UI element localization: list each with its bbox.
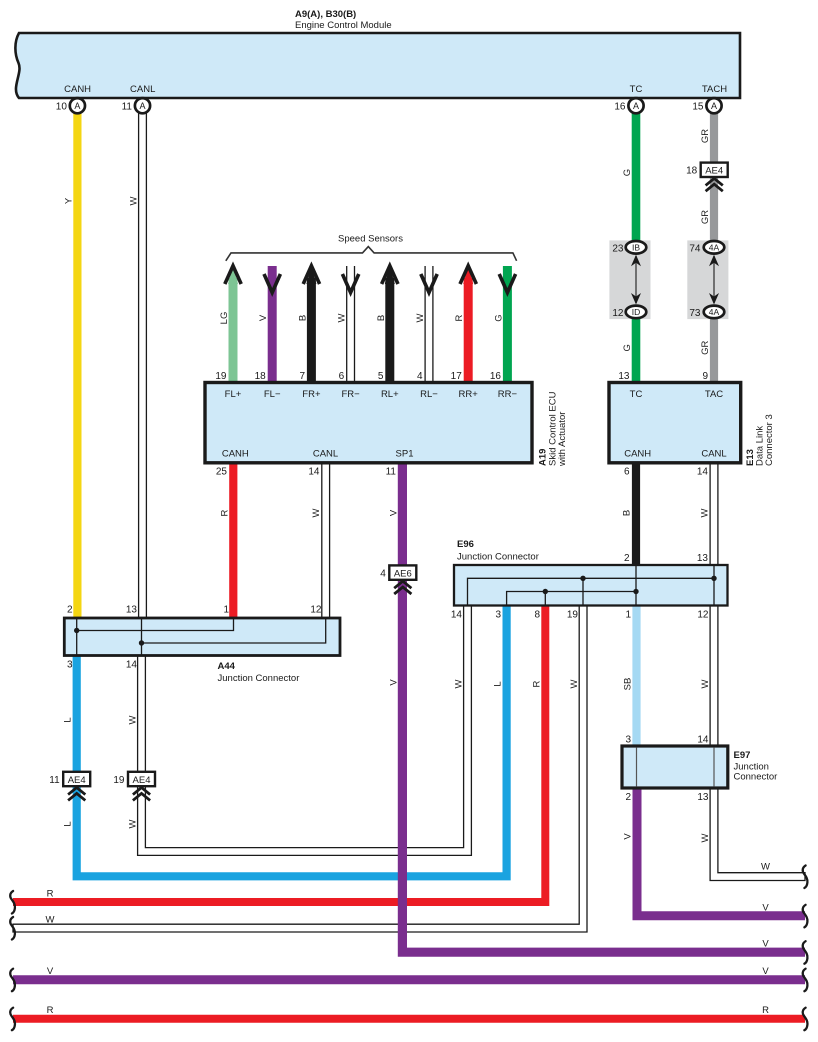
svg-text:Junction Connector: Junction Connector — [218, 673, 300, 684]
ECM A9(A),B30(B) Engine Control Module box — [15, 33, 740, 98]
svg-text:14: 14 — [308, 467, 320, 478]
svg-text:R: R — [454, 314, 465, 321]
svg-text:16: 16 — [614, 101, 626, 112]
svg-text:TC: TC — [630, 84, 643, 95]
svg-text:W: W — [454, 679, 465, 688]
svg-text:Connector 3: Connector 3 — [764, 414, 775, 466]
Speed Sensors brace — [226, 247, 517, 261]
svg-text:V: V — [623, 833, 634, 840]
svg-text:4A: 4A — [709, 243, 720, 253]
svg-text:CANH: CANH — [64, 84, 91, 95]
svg-text:SB: SB — [623, 678, 634, 691]
svg-text:GR: GR — [700, 129, 711, 143]
svg-text:LG: LG — [219, 312, 230, 325]
svg-text:16: 16 — [490, 371, 502, 382]
svg-text:RR+: RR+ — [459, 389, 479, 400]
svg-text:2: 2 — [625, 792, 631, 803]
svg-text:11: 11 — [122, 101, 133, 112]
splice AE4 (19) on W wire — [128, 772, 155, 786]
svg-text:R: R — [47, 889, 54, 900]
wire G: ECM TC pin16 to IB connector — [632, 113, 641, 244]
wire W: E96 pin19 down to left edge break (L-shaped) — [13, 605, 587, 932]
svg-text:6: 6 — [624, 467, 630, 478]
svg-text:W: W — [337, 313, 348, 322]
svg-text:13: 13 — [126, 605, 138, 616]
splice AE6 (4) on V wire — [389, 565, 416, 579]
ECM terminal circle 15(A) — [706, 98, 721, 113]
svg-text:14: 14 — [697, 735, 709, 746]
svg-text:V: V — [762, 939, 769, 950]
oval terminal 74 4A — [704, 241, 725, 254]
svg-text:R: R — [47, 1005, 54, 1016]
wire G: ID connector to E13 pin13 — [632, 315, 641, 383]
svg-text:12: 12 — [310, 605, 322, 616]
svg-text:SP1: SP1 — [396, 449, 414, 460]
E96 internal bus wiring — [468, 578, 715, 605]
wire V: E97 pin2 down to right edge break — [637, 788, 805, 916]
svg-text:A: A — [74, 101, 80, 111]
A44 junction dots — [74, 628, 79, 633]
svg-text:E97: E97 — [734, 750, 751, 761]
svg-text:3: 3 — [67, 660, 73, 671]
speed sensor wire W (down arrow) — [347, 266, 355, 383]
wire GR: ECM TACH pin15 to 4A connector — [710, 113, 718, 244]
connector arrows IB to ID — [635, 256, 637, 303]
svg-text:74: 74 — [689, 243, 701, 254]
wire B: E13 CANH pin6 to E96 pin2 — [632, 463, 640, 565]
svg-text:12: 12 — [612, 308, 624, 319]
svg-text:A: A — [633, 101, 639, 111]
wire V: full-width bottom violet — [13, 975, 805, 984]
svg-text:RL+: RL+ — [381, 389, 399, 400]
svg-text:W: W — [46, 915, 55, 926]
speed sensor wire V (down arrow) — [268, 266, 277, 383]
svg-text:19: 19 — [113, 775, 125, 786]
svg-text:TC: TC — [630, 389, 643, 400]
svg-text:R: R — [762, 1005, 769, 1016]
svg-text:4A: 4A — [709, 307, 720, 317]
ECM terminal circle 11(A) — [135, 98, 150, 113]
svg-text:TACH: TACH — [702, 84, 727, 95]
wire Y: ECM CANH pin10 to A44 pin2 — [73, 113, 81, 618]
svg-text:Speed Sensors: Speed Sensors — [338, 234, 403, 245]
svg-text:10: 10 — [56, 101, 68, 112]
svg-text:AE6: AE6 — [394, 568, 412, 579]
ECM terminal circle 16(A) — [628, 98, 643, 113]
svg-text:3: 3 — [495, 610, 501, 621]
oval terminal 73 4A — [704, 306, 725, 319]
wire SB: E96 pin1 to E97 pin3 — [632, 605, 640, 746]
svg-text:AE4: AE4 — [133, 775, 151, 786]
svg-text:5: 5 — [378, 371, 384, 382]
svg-text:Junction Connector: Junction Connector — [457, 552, 539, 563]
junction connector A44 box — [64, 618, 340, 656]
wire W: E13 CANL pin14 to E96 pin13 — [710, 463, 718, 565]
svg-text:6: 6 — [339, 371, 345, 382]
svg-text:AE4: AE4 — [705, 166, 723, 177]
svg-text:FR−: FR− — [341, 389, 360, 400]
wire break symbols — [10, 891, 15, 914]
junction connector E97 box — [622, 746, 728, 788]
svg-text:Y: Y — [64, 197, 75, 204]
svg-text:R: R — [531, 680, 542, 687]
wire W: E97 pin13 down to right edge break (L-shaped) — [710, 788, 805, 881]
svg-text:RL−: RL− — [420, 389, 438, 400]
splice AE4 (18) on GR wire — [701, 163, 728, 177]
svg-text:FL−: FL− — [264, 389, 281, 400]
speed sensor wire B (up arrow) — [385, 278, 394, 383]
ECM terminal circle 10(A) — [70, 98, 85, 113]
svg-text:CANL: CANL — [313, 449, 338, 460]
svg-text:11: 11 — [386, 467, 397, 478]
svg-text:18: 18 — [686, 166, 698, 177]
svg-text:V: V — [47, 966, 54, 977]
svg-text:L: L — [63, 821, 74, 826]
svg-text:V: V — [762, 966, 769, 977]
svg-text:4: 4 — [380, 568, 386, 579]
svg-text:G: G — [622, 344, 633, 351]
svg-text:B: B — [376, 315, 387, 321]
wire L: A44 pin3 via AE4(11) to E96 pin3 — [77, 605, 507, 876]
svg-text:11: 11 — [49, 775, 60, 786]
svg-text:AE4: AE4 — [68, 775, 86, 786]
svg-text:13: 13 — [618, 371, 630, 382]
oval terminal ID — [626, 306, 647, 319]
svg-text:1: 1 — [223, 605, 229, 616]
svg-text:19: 19 — [567, 610, 579, 621]
svg-text:2: 2 — [624, 553, 630, 564]
svg-text:A: A — [139, 101, 145, 111]
svg-text:14: 14 — [451, 610, 463, 621]
wire V: A19 SP1 pin11 via AE6 to right edge break (drawn last, crosses others) — [402, 463, 805, 952]
svg-text:R: R — [219, 509, 230, 516]
svg-text:V: V — [258, 314, 269, 321]
svg-text:CANH: CANH — [222, 449, 249, 460]
svg-text:CANH: CANH — [624, 449, 651, 460]
svg-text:B: B — [297, 315, 308, 321]
svg-text:L: L — [493, 681, 504, 686]
svg-text:A44: A44 — [218, 661, 236, 672]
svg-text:1: 1 — [625, 610, 631, 621]
svg-text:W: W — [129, 196, 140, 205]
svg-text:RR−: RR− — [498, 389, 518, 400]
oval terminal IB — [626, 241, 647, 254]
svg-text:25: 25 — [216, 467, 228, 478]
svg-text:ID: ID — [632, 307, 641, 317]
wire R: left edge break to E96 pin8 — [13, 605, 545, 902]
svg-text:B: B — [622, 510, 633, 516]
svg-text:18: 18 — [255, 371, 267, 382]
E96 junction dots — [580, 576, 585, 581]
svg-text:W: W — [311, 508, 322, 517]
svg-text:W: W — [415, 313, 426, 322]
svg-text:W: W — [700, 508, 711, 517]
svg-text:7: 7 — [299, 371, 305, 382]
svg-text:W: W — [128, 819, 139, 828]
wire W: ECM CANL pin11 to A44 pin13 — [139, 113, 147, 618]
svg-text:17: 17 — [451, 371, 463, 382]
svg-text:IB: IB — [632, 243, 640, 253]
svg-text:3: 3 — [625, 735, 631, 746]
wire W: A44 pin14 via AE4(19) to E96 pin14 (L-shaped) — [138, 605, 472, 855]
connector block IB/ID (shaded) — [609, 240, 650, 319]
svg-text:13: 13 — [697, 553, 709, 564]
svg-text:23: 23 — [612, 243, 624, 254]
svg-text:W: W — [700, 833, 711, 842]
wire R: A19 CANH pin25 to A44 pin1 — [229, 463, 237, 618]
svg-text:GR: GR — [700, 210, 711, 224]
svg-text:4: 4 — [417, 371, 423, 382]
svg-text:V: V — [762, 903, 769, 914]
svg-text:V: V — [388, 509, 399, 516]
speed sensor wire R (up arrow) — [464, 278, 473, 383]
data link connector E13 box — [609, 383, 741, 463]
svg-text:L: L — [63, 717, 74, 722]
svg-text:15: 15 — [692, 101, 704, 112]
wire W: A19 CANL pin14 to A44 pin12 — [322, 463, 330, 618]
svg-text:A: A — [711, 101, 717, 111]
svg-text:14: 14 — [126, 660, 138, 671]
speed sensor wire B (up arrow) — [307, 278, 316, 383]
svg-text:13: 13 — [697, 792, 709, 803]
svg-text:with Actuator: with Actuator — [557, 412, 568, 467]
speed sensor wire LG (up arrow) — [229, 278, 238, 383]
svg-text:FR+: FR+ — [302, 389, 321, 400]
svg-text:Engine Control Module: Engine Control Module — [295, 20, 392, 31]
svg-text:W: W — [700, 679, 711, 688]
svg-text:CANL: CANL — [130, 84, 155, 95]
svg-text:9: 9 — [702, 371, 708, 382]
svg-text:W: W — [761, 862, 770, 873]
svg-text:W: W — [128, 715, 139, 724]
connector arrows 4A to 4A — [713, 256, 715, 303]
junction connector E96 box — [454, 565, 728, 606]
svg-text:12: 12 — [697, 610, 709, 621]
connector block 4A/4A (shaded) — [687, 240, 728, 319]
svg-text:TAC: TAC — [705, 389, 723, 400]
A44 internal bus wiring — [76, 618, 78, 656]
wire W: E96 pin12 to E97 pin14 — [710, 605, 718, 746]
wire R: full-width bottom red — [13, 1015, 805, 1023]
svg-text:8: 8 — [534, 610, 540, 621]
svg-text:2: 2 — [67, 605, 73, 616]
splice AE4 (11) on L wire — [63, 772, 90, 786]
svg-text:FL+: FL+ — [225, 389, 242, 400]
svg-text:Connector: Connector — [734, 772, 778, 783]
wire GR: 4A connector to E13 pin9 — [710, 315, 718, 383]
svg-text:14: 14 — [697, 467, 709, 478]
skid control ECU A19 box — [205, 383, 532, 463]
svg-text:CANL: CANL — [701, 449, 726, 460]
svg-text:73: 73 — [689, 308, 701, 319]
svg-text:W: W — [569, 679, 580, 688]
svg-text:E96: E96 — [457, 539, 474, 550]
svg-text:V: V — [388, 679, 399, 686]
svg-text:19: 19 — [215, 371, 227, 382]
speed sensor wire W (down arrow) — [425, 266, 433, 383]
svg-text:A9(A), B30(B): A9(A), B30(B) — [295, 9, 356, 20]
speed sensor wire G (down arrow) — [503, 266, 512, 383]
svg-text:GR: GR — [700, 341, 711, 355]
svg-text:G: G — [493, 314, 504, 321]
svg-text:G: G — [622, 169, 633, 176]
